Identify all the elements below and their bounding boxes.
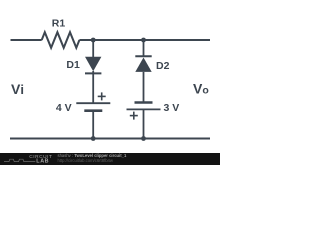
svg-text:4 V: 4 V xyxy=(56,102,72,114)
wire branch1 middle xyxy=(92,71,94,103)
plus sign battery V1 xyxy=(98,95,106,97)
node D (bottom junction battery V2) xyxy=(141,136,146,141)
wire branch1 bottom xyxy=(92,111,94,139)
svg-text:http://circuitlab.com/c6rt8fb4: http://circuitlab.com/c6rt8fb4w xyxy=(58,158,114,163)
battery V1 4V long plate (+) xyxy=(76,102,110,104)
svg-text:Vi: Vi xyxy=(11,81,24,97)
diode D1 (cathode down) xyxy=(85,57,101,72)
wire top left segment xyxy=(11,39,42,41)
wire top right segment xyxy=(79,39,210,41)
footer watermark bar xyxy=(0,153,220,165)
wire branch2 bottom xyxy=(143,109,145,138)
battery V2 3V short plate (-) xyxy=(135,101,153,104)
battery V2 3V long plate (+) xyxy=(127,108,161,110)
node A (top junction D1) xyxy=(91,38,96,43)
wire branch2 top xyxy=(143,40,145,56)
svg-text:Vo: Vo xyxy=(193,81,209,97)
wire branch2 middle xyxy=(143,72,145,103)
svg-text:LAB: LAB xyxy=(36,159,49,165)
wire bottom xyxy=(10,138,210,140)
plus sign battery V2 xyxy=(130,115,138,117)
resistor R1 xyxy=(42,32,80,48)
node B (top junction D2) xyxy=(141,38,146,43)
battery V1 4V short plate (-) xyxy=(84,109,102,112)
svg-text:D1: D1 xyxy=(66,59,80,71)
diode D2 (cathode up) xyxy=(135,55,151,57)
node C (bottom junction battery V1) xyxy=(91,136,96,141)
wire branch1 top xyxy=(92,40,94,57)
svg-text:D2: D2 xyxy=(156,60,170,72)
CircuitLab logo squiggle xyxy=(4,159,35,161)
svg-text:3 V: 3 V xyxy=(164,102,180,114)
svg-text:R1: R1 xyxy=(52,17,66,29)
